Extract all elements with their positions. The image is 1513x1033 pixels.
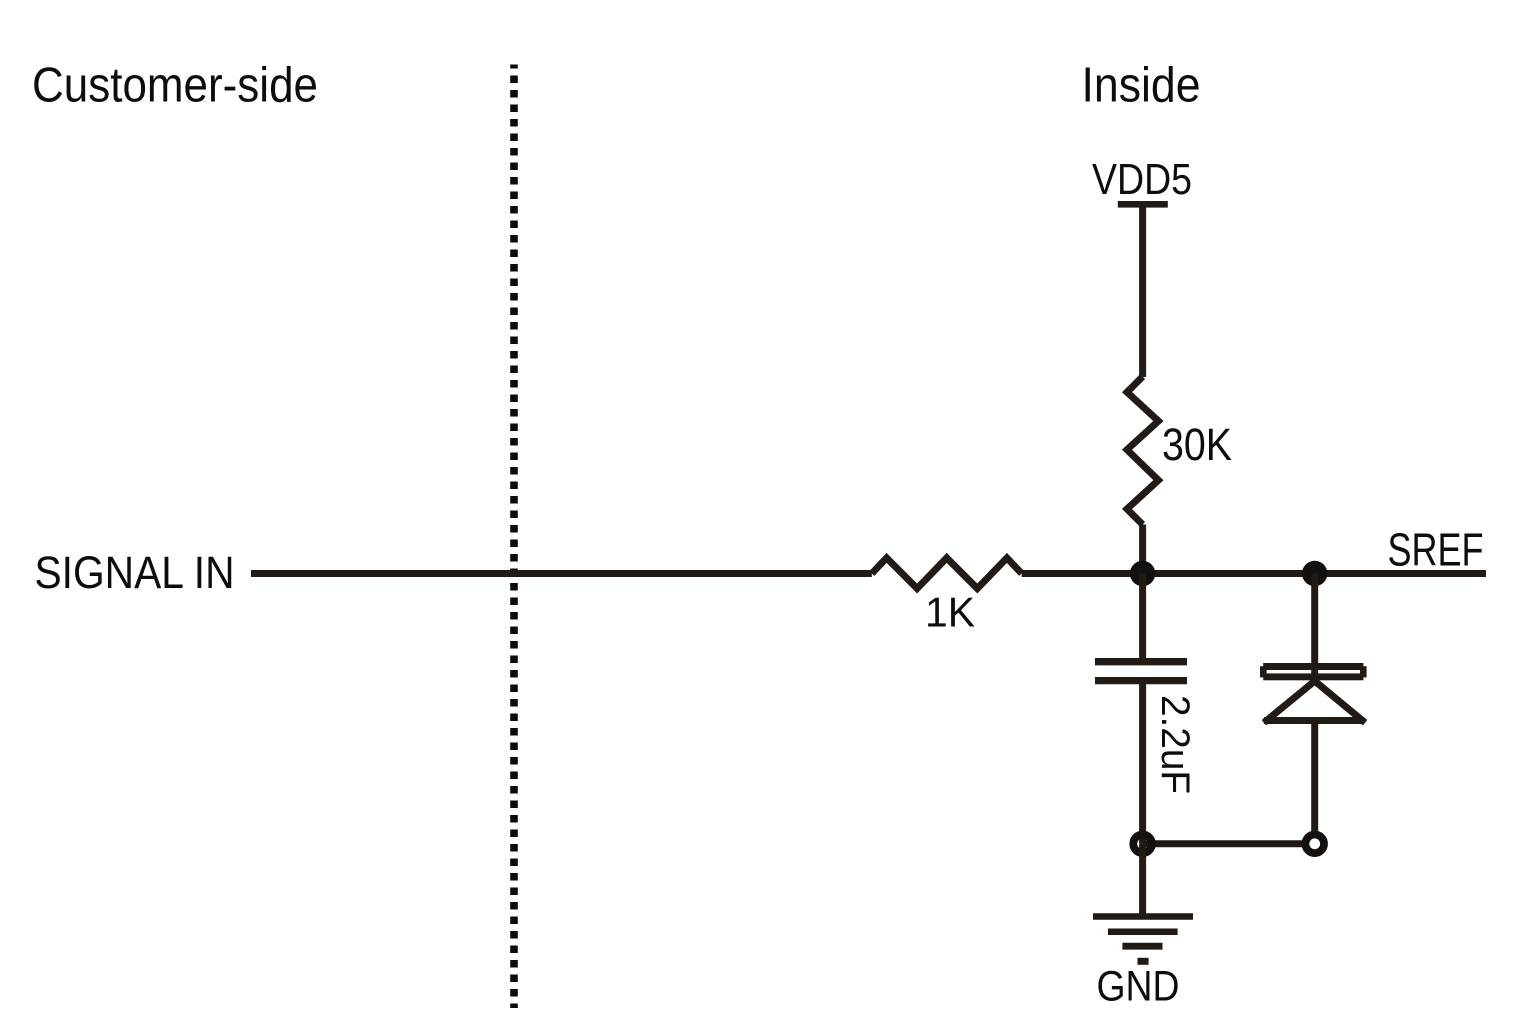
wire capacitor to node C xyxy=(1139,682,1146,844)
junction node D xyxy=(1305,835,1324,854)
diode D1 triangle right side xyxy=(1315,681,1363,721)
svg-text:Inside: Inside xyxy=(1082,59,1201,113)
wire node C to ground xyxy=(1139,844,1146,917)
svg-text:2.2uF: 2.2uF xyxy=(1153,695,1197,794)
wire node A to capacitor xyxy=(1139,574,1146,661)
ground bar 1 xyxy=(1093,913,1193,920)
ground bar 4 xyxy=(1138,958,1149,965)
svg-text:GND: GND xyxy=(1097,963,1180,1011)
wire 30K to node A xyxy=(1139,525,1146,574)
svg-text:VDD5: VDD5 xyxy=(1092,155,1192,204)
wire 1K to node A xyxy=(1022,570,1143,577)
capacitor C1 bottom plate xyxy=(1095,677,1187,684)
capacitor C1 top plate xyxy=(1095,658,1187,665)
wire diode D1 to node D xyxy=(1311,721,1318,838)
wire node B to diode D1 xyxy=(1311,574,1318,680)
svg-text:SIGNAL IN: SIGNAL IN xyxy=(35,547,235,598)
ground bar 2 xyxy=(1108,928,1178,935)
ground bar 3 xyxy=(1122,943,1162,950)
diode D1 triangle xyxy=(1267,681,1315,721)
diode D1 cathode bar top line xyxy=(1263,663,1363,670)
boundary dotted separator xyxy=(510,65,518,1009)
diode D1 cathode bar left tab xyxy=(1260,666,1267,677)
wire SIGNAL IN to R 1K xyxy=(251,570,872,577)
diode D1 cathode bar bottom line xyxy=(1263,673,1363,680)
wire node C to node D xyxy=(1143,840,1303,847)
wire node B to SREF xyxy=(1315,570,1486,577)
resistor 1K xyxy=(872,558,1022,589)
junction node A xyxy=(1130,561,1155,586)
resistor 30K xyxy=(1127,377,1158,525)
svg-text:1K: 1K xyxy=(925,588,975,635)
power symbol VDD5 bar xyxy=(1118,201,1168,208)
diode D1 triangle base xyxy=(1264,717,1364,724)
svg-text:SREF: SREF xyxy=(1388,524,1484,576)
diode D1 cathode bar right tab xyxy=(1360,666,1367,677)
junction node C xyxy=(1133,835,1152,854)
svg-text:Customer-side: Customer-side xyxy=(32,59,318,113)
wire VDD5 to R 30K xyxy=(1139,204,1146,377)
junction node B xyxy=(1302,561,1327,586)
wire node A to node B xyxy=(1143,570,1315,577)
svg-text:30K: 30K xyxy=(1162,419,1232,470)
